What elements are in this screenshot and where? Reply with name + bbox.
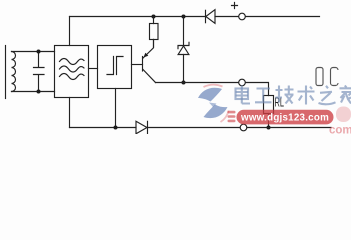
watermark char 术	[298, 86, 315, 105]
wave symbol 2	[60, 66, 85, 72]
terminal circle top	[239, 13, 246, 20]
label DC : letter D	[316, 68, 338, 86]
node dot box2 pin bottom	[114, 126, 118, 130]
wire box2 output to transistor base	[132, 64, 143, 66]
resistor R1	[153, 17, 155, 48]
wire coil bottom to box1	[12, 91, 55, 93]
node dot relay bottom	[267, 126, 271, 130]
watermark char 技	[276, 86, 294, 104]
watermark char 工	[255, 89, 272, 103]
watermark char 之	[319, 86, 336, 104]
capacitor C1	[34, 52, 45, 92]
top rail wire	[70, 16, 320, 18]
svg-text:www.dgjs123.com: www.dgjs123.com	[240, 113, 329, 124]
watermark logo circle	[198, 85, 229, 122]
bottom rail wire	[70, 127, 332, 129]
label DC : letter C	[331, 68, 339, 86]
node dot cap top	[37, 50, 41, 54]
terminal circle bottom	[240, 124, 247, 131]
wire box2 bottom pin	[115, 89, 117, 128]
watermark red band	[237, 110, 334, 125]
inductor L1 (sensor coil)	[12, 52, 16, 92]
plus label	[232, 3, 238, 9]
watermark char 家	[340, 86, 351, 104]
wave symbol 1	[60, 59, 85, 65]
watermark char 电	[236, 86, 251, 104]
relay coil RL	[264, 96, 274, 114]
zener diode ZD1	[178, 17, 189, 49]
node dot resistor top	[152, 15, 156, 19]
coil core bar	[5, 46, 7, 99]
mid rail wire	[156, 83, 269, 96]
wire box1 top pin to top rail	[69, 17, 71, 46]
wave symbol 3	[60, 74, 85, 80]
terminal circle mid	[239, 79, 246, 86]
node dot zener top	[182, 15, 186, 19]
wire box1 to box2	[89, 68, 98, 70]
schmitt trigger box U2	[98, 46, 132, 89]
transistor Q1 (PNP)	[142, 57, 144, 72]
node dot zener bottom	[182, 81, 186, 85]
wire box1 bottom pin to bottom rail	[69, 98, 71, 128]
node dot cap bottom	[37, 90, 41, 94]
watermark ghost band right	[336, 107, 351, 123]
diode D1 (top, pointing left)	[205, 10, 207, 22]
watermark red icon bars	[228, 111, 236, 122]
wire relay bottom pin	[268, 114, 270, 128]
wire coil top to box1	[12, 51, 55, 53]
oscillator filter box U1	[55, 46, 89, 98]
diode D2 (bottom, pointing right)	[136, 121, 147, 134]
svg-text:com: com	[329, 125, 351, 135]
hysteresis symbol	[107, 57, 123, 75]
